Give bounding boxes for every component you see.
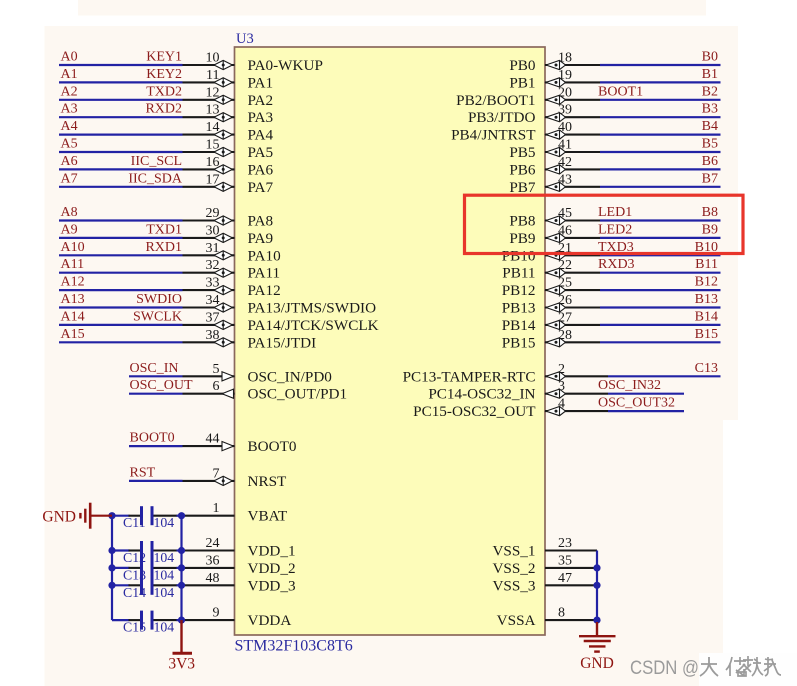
wire net B6 (blue) xyxy=(600,168,721,170)
capacitor C12 xyxy=(112,541,182,560)
pin 30 marker xyxy=(214,233,232,242)
wire to pin 36 (VDD_2) xyxy=(182,567,235,569)
svg-text:13: 13 xyxy=(206,103,220,118)
svg-text:GND: GND xyxy=(42,508,76,525)
pin 43 marker xyxy=(546,182,566,191)
svg-text:PB10: PB10 xyxy=(502,247,536,264)
svg-text:17: 17 xyxy=(206,172,220,187)
svg-text:BOOT0: BOOT0 xyxy=(248,438,297,455)
svg-text:A14: A14 xyxy=(61,309,85,324)
wire net B9 (blue) xyxy=(600,237,721,239)
wire to pin 14 (black) xyxy=(183,134,235,136)
svg-text:PA0-WKUP: PA0-WKUP xyxy=(248,57,323,74)
svg-text:27: 27 xyxy=(558,310,572,325)
svg-text:RXD1: RXD1 xyxy=(145,240,182,255)
svg-text:PB14: PB14 xyxy=(502,317,536,334)
svg-text:PB13: PB13 xyxy=(502,300,536,317)
wire from pin 26 (black) xyxy=(545,306,600,308)
pin 33 marker xyxy=(214,286,232,295)
wire to pin 44 (black) xyxy=(183,445,235,447)
svg-text:OSC_IN32: OSC_IN32 xyxy=(598,378,661,393)
svg-text:48: 48 xyxy=(206,571,220,586)
svg-text:B9: B9 xyxy=(702,222,718,237)
svg-text:A11: A11 xyxy=(61,257,85,272)
svg-text:A8: A8 xyxy=(61,205,78,220)
svg-text:30: 30 xyxy=(206,223,220,238)
svg-text:A7: A7 xyxy=(61,171,78,186)
svg-text:PA2: PA2 xyxy=(248,92,274,109)
svg-text:18: 18 xyxy=(558,51,572,66)
wire net B3 (blue) xyxy=(600,116,721,118)
wire to pin 5 (black) xyxy=(183,375,235,377)
IC U3 body (STM32F103C8T6) xyxy=(235,47,546,635)
svg-text:VDD_1: VDD_1 xyxy=(248,543,296,560)
svg-text:22: 22 xyxy=(558,258,572,273)
svg-text:C15: C15 xyxy=(123,620,146,635)
pin 41 marker xyxy=(546,147,566,156)
watermark glyph 1 xyxy=(700,657,718,676)
svg-text:A10: A10 xyxy=(61,240,85,255)
wire net RST (blue) xyxy=(129,480,183,482)
svg-text:PA3: PA3 xyxy=(248,109,274,126)
pin 39 marker xyxy=(546,113,566,122)
svg-text:35: 35 xyxy=(558,553,572,568)
svg-text:OSC_IN/PD0: OSC_IN/PD0 xyxy=(248,368,333,385)
svg-text:A2: A2 xyxy=(61,84,78,99)
svg-text:PA5: PA5 xyxy=(248,144,274,161)
pin 10 marker xyxy=(214,60,232,69)
svg-text:20: 20 xyxy=(558,85,572,100)
wire from pin 21 (black) xyxy=(545,254,600,256)
wire from pin 2 (black) xyxy=(545,375,608,377)
capacitor C11 xyxy=(112,506,182,525)
pin 21 marker xyxy=(546,251,566,260)
svg-text:24: 24 xyxy=(206,536,220,551)
wire to pin 37 (black) xyxy=(183,324,235,326)
svg-text:36: 36 xyxy=(206,553,220,568)
pin 17 marker xyxy=(214,182,232,191)
junction xyxy=(178,547,185,554)
wire from pin 42 (black) xyxy=(545,168,600,170)
wire net A12 (blue) xyxy=(59,289,183,291)
svg-text:B0: B0 xyxy=(702,50,718,65)
svg-text:B11: B11 xyxy=(695,257,718,272)
svg-text:U3: U3 xyxy=(236,31,254,47)
junction xyxy=(593,564,600,571)
wire to pin 6 (black) xyxy=(183,393,235,395)
pin 27 marker xyxy=(546,320,566,329)
svg-text:PB3/JTDO: PB3/JTDO xyxy=(468,109,536,126)
wire to pin 15 (black) xyxy=(183,151,235,153)
wire right rail (3V3 bus) xyxy=(180,516,182,620)
svg-text:BOOT1: BOOT1 xyxy=(598,84,643,99)
watermark glyph 2 xyxy=(726,657,746,676)
wire net A11 (blue) xyxy=(59,272,183,274)
pin 7 marker xyxy=(214,476,232,485)
wire from pin 40 (black) xyxy=(545,134,600,136)
svg-text:A12: A12 xyxy=(61,275,85,290)
svg-text:OSC_OUT32: OSC_OUT32 xyxy=(598,396,675,411)
svg-text:16: 16 xyxy=(206,155,220,170)
svg-text:LED2: LED2 xyxy=(598,222,632,237)
wire from pin 46 (black) xyxy=(545,237,600,239)
wire to pin 48 (VDD_3) xyxy=(182,584,235,586)
wire left rail (GND bus) xyxy=(111,516,113,620)
svg-text:NRST: NRST xyxy=(248,473,288,490)
svg-text:VDD_3: VDD_3 xyxy=(248,577,296,594)
svg-text:PA9: PA9 xyxy=(248,230,274,247)
svg-text:OSC_OUT/PD1: OSC_OUT/PD1 xyxy=(248,386,348,403)
capacitor C14 xyxy=(112,576,182,595)
junction xyxy=(108,547,115,554)
svg-text:CSDN @: CSDN @ xyxy=(630,657,699,679)
svg-text:B4: B4 xyxy=(702,119,718,134)
svg-text:A3: A3 xyxy=(61,102,78,117)
svg-text:32: 32 xyxy=(206,258,220,273)
pin 34 marker xyxy=(214,303,232,312)
wire net B10 (blue) xyxy=(600,254,721,256)
wire net A13 (blue) xyxy=(59,306,183,308)
wire net B2 (blue) xyxy=(600,99,721,101)
wire VSS rail (blue) xyxy=(596,551,598,623)
svg-text:104: 104 xyxy=(154,550,175,565)
wire net A9 (blue) xyxy=(59,237,183,239)
wire from pin 28 (black) xyxy=(545,341,600,343)
power 3V3 xyxy=(173,620,193,653)
pin 29 marker xyxy=(214,216,232,225)
svg-text:43: 43 xyxy=(558,172,572,187)
svg-text:PA11: PA11 xyxy=(248,265,281,282)
pin 13 marker xyxy=(214,113,232,122)
wire net A7 (blue) xyxy=(59,186,183,188)
junction xyxy=(108,564,115,571)
wire net A1 (blue) xyxy=(59,81,183,83)
svg-text:104: 104 xyxy=(154,585,175,600)
annotation highlight box (PB8/PB9 LED1/LED2) xyxy=(465,195,744,253)
svg-text:42: 42 xyxy=(558,155,572,170)
svg-text:VBAT: VBAT xyxy=(248,508,288,525)
svg-text:25: 25 xyxy=(558,276,572,291)
wire from pin 39 (black) xyxy=(545,116,600,118)
svg-text:PB6: PB6 xyxy=(509,161,536,178)
svg-text:TXD2: TXD2 xyxy=(146,84,182,99)
svg-text:A0: A0 xyxy=(61,50,78,65)
svg-text:46: 46 xyxy=(558,223,572,238)
svg-text:B1: B1 xyxy=(702,67,718,82)
svg-text:PA6: PA6 xyxy=(248,161,274,178)
wire to pin 33 (black) xyxy=(183,289,235,291)
svg-text:A13: A13 xyxy=(61,292,85,307)
wire from pin 35 (VSS_2) xyxy=(545,567,597,569)
svg-text:TXD1: TXD1 xyxy=(146,222,182,237)
pin 22 marker xyxy=(546,268,566,277)
svg-text:PA13/JTMS/SWDIO: PA13/JTMS/SWDIO xyxy=(248,300,377,317)
wire net A8 (blue) xyxy=(59,219,183,221)
watermark glyph 4 xyxy=(764,657,781,676)
wire to pin 10 (black) xyxy=(183,64,235,66)
svg-text:A4: A4 xyxy=(61,119,78,134)
svg-text:5: 5 xyxy=(213,362,220,377)
svg-text:15: 15 xyxy=(206,138,220,153)
pin 18 marker xyxy=(546,60,566,69)
svg-text:IIC_SDA: IIC_SDA xyxy=(128,171,183,186)
svg-text:B8: B8 xyxy=(702,205,718,220)
svg-text:PB5: PB5 xyxy=(509,144,535,161)
svg-text:37: 37 xyxy=(206,310,220,325)
wire from pin 4 (black) xyxy=(545,410,608,412)
svg-text:A9: A9 xyxy=(61,222,78,237)
wire net B13 (blue) xyxy=(600,306,721,308)
svg-text:BOOT0: BOOT0 xyxy=(130,431,175,446)
wire to pin 13 (black) xyxy=(183,116,235,118)
pin 12 marker xyxy=(214,95,232,104)
ground GND (VSS) xyxy=(579,622,616,652)
svg-text:PB2/BOOT1: PB2/BOOT1 xyxy=(456,92,535,109)
wire to pin 16 (black) xyxy=(183,168,235,170)
svg-text:PA10: PA10 xyxy=(248,247,282,264)
svg-text:IIC_SCL: IIC_SCL xyxy=(131,154,182,169)
svg-text:VSS_3: VSS_3 xyxy=(492,577,535,594)
pin 3 marker xyxy=(546,389,566,398)
wire from pin 43 (black) xyxy=(545,186,600,188)
svg-text:C13: C13 xyxy=(695,361,718,376)
wire net A5 (blue) xyxy=(59,151,183,153)
svg-text:104: 104 xyxy=(154,567,175,582)
junction xyxy=(178,582,185,589)
wire net A14 (blue) xyxy=(59,324,183,326)
pin 6 marker xyxy=(222,389,234,398)
wire net A2 (blue) xyxy=(59,99,183,101)
svg-text:4: 4 xyxy=(558,397,565,412)
pin 26 marker xyxy=(546,303,566,312)
wire to pin 29 (black) xyxy=(183,219,235,221)
ground GND (cap rail) xyxy=(80,503,112,529)
svg-text:GND: GND xyxy=(580,655,614,672)
svg-text:104: 104 xyxy=(154,620,175,635)
svg-text:PA15/JTDI: PA15/JTDI xyxy=(248,334,317,351)
wire from pin 25 (black) xyxy=(545,289,600,291)
junction (GND to rail) xyxy=(108,512,115,519)
pin 28 marker xyxy=(546,338,566,347)
svg-text:23: 23 xyxy=(558,536,572,551)
svg-text:B12: B12 xyxy=(695,275,718,290)
svg-text:PB8: PB8 xyxy=(509,213,536,230)
wire net A6 (blue) xyxy=(59,168,183,170)
svg-text:104: 104 xyxy=(154,515,175,530)
svg-text:38: 38 xyxy=(206,328,220,343)
wire net B14 (blue) xyxy=(600,324,721,326)
svg-text:9: 9 xyxy=(213,606,220,621)
wire from pin 20 (black) xyxy=(545,99,600,101)
pin 2 marker xyxy=(546,372,566,381)
svg-text:PC14-OSC32_IN: PC14-OSC32_IN xyxy=(428,386,535,403)
capacitor C13 xyxy=(112,558,182,577)
pin 37 marker xyxy=(214,320,232,329)
svg-text:41: 41 xyxy=(558,138,572,153)
svg-text:PA4: PA4 xyxy=(248,127,274,144)
junction xyxy=(593,582,600,589)
svg-text:PB7: PB7 xyxy=(509,179,536,196)
svg-text:29: 29 xyxy=(206,206,220,221)
svg-text:RXD3: RXD3 xyxy=(598,257,635,272)
svg-text:11: 11 xyxy=(206,68,219,83)
svg-text:B3: B3 xyxy=(702,102,718,117)
svg-text:12: 12 xyxy=(206,85,220,100)
svg-text:PB0: PB0 xyxy=(509,57,536,74)
wire net OSC_OUT32 (blue) xyxy=(608,410,684,412)
svg-text:10: 10 xyxy=(206,51,220,66)
pin 16 marker xyxy=(214,165,232,174)
svg-text:47: 47 xyxy=(558,571,572,586)
watermark glyph 3 xyxy=(743,656,763,676)
svg-text:8: 8 xyxy=(558,606,565,621)
wire from pin 8 (VSSA) xyxy=(545,619,597,621)
wire to pin 34 (black) xyxy=(183,306,235,308)
svg-text:SWDIO: SWDIO xyxy=(136,292,182,307)
svg-text:VSS_1: VSS_1 xyxy=(492,543,535,560)
wire net OSC_IN (blue) xyxy=(129,375,183,377)
wire net B5 (blue) xyxy=(600,151,721,153)
pin 11 marker xyxy=(214,78,232,87)
svg-text:40: 40 xyxy=(558,120,572,135)
svg-text:31: 31 xyxy=(206,241,220,256)
svg-text:44: 44 xyxy=(206,432,220,447)
svg-text:A5: A5 xyxy=(61,137,78,152)
svg-text:7: 7 xyxy=(213,466,220,481)
pin 19 marker xyxy=(546,78,566,87)
wire to pin 12 (black) xyxy=(183,99,235,101)
svg-text:PA12: PA12 xyxy=(248,282,281,299)
wire from pin 41 (black) xyxy=(545,151,600,153)
junction xyxy=(593,617,600,624)
pin 20 marker xyxy=(546,95,566,104)
pin 5 marker xyxy=(222,372,234,381)
pin 40 marker xyxy=(546,130,566,139)
pin 42 marker xyxy=(546,165,566,174)
svg-text:B15: B15 xyxy=(695,327,718,342)
svg-text:PA8: PA8 xyxy=(248,213,274,230)
svg-text:OSC_IN: OSC_IN xyxy=(130,361,179,376)
svg-text:KEY2: KEY2 xyxy=(146,67,182,82)
svg-text:PB12: PB12 xyxy=(502,282,536,299)
wire net A10 (blue) xyxy=(59,254,183,256)
wire from pin 47 (VSS_3) xyxy=(545,584,597,586)
svg-text:LED1: LED1 xyxy=(598,205,632,220)
svg-text:PA14/JTCK/SWCLK: PA14/JTCK/SWCLK xyxy=(248,317,379,334)
wire net OSC_OUT (blue) xyxy=(129,393,183,395)
pin 38 marker xyxy=(214,338,232,347)
pin 44 marker xyxy=(222,442,234,451)
pin 46 marker xyxy=(546,233,566,242)
junction xyxy=(178,617,185,624)
svg-text:19: 19 xyxy=(558,68,572,83)
wire net A0 (blue) xyxy=(59,64,183,66)
svg-text:STM32F103C8T6: STM32F103C8T6 xyxy=(235,638,353,655)
wire from pin 19 (black) xyxy=(545,81,600,83)
svg-text:PA1: PA1 xyxy=(248,74,274,91)
wire net A15 (blue) xyxy=(59,341,183,343)
wire net B12 (blue) xyxy=(600,289,721,291)
svg-text:3V3: 3V3 xyxy=(168,656,195,673)
wire from pin 23 (VSS_1) xyxy=(545,549,597,551)
capacitor C15 xyxy=(112,611,182,630)
svg-text:A6: A6 xyxy=(61,154,78,169)
svg-text:RXD2: RXD2 xyxy=(145,102,182,117)
svg-text:SWCLK: SWCLK xyxy=(133,309,182,324)
svg-text:B6: B6 xyxy=(702,154,718,169)
wire net A3 (blue) xyxy=(59,116,183,118)
svg-text:B13: B13 xyxy=(695,292,718,307)
pin 45 marker xyxy=(546,216,566,225)
pin 31 marker xyxy=(214,251,232,260)
svg-text:B7: B7 xyxy=(702,171,718,186)
wire from pin 18 (black) xyxy=(545,64,600,66)
svg-text:B2: B2 xyxy=(702,84,718,99)
wire from pin 3 (black) xyxy=(545,393,608,395)
wire net B0 (blue) xyxy=(600,64,721,66)
svg-text:PC15-OSC32_OUT: PC15-OSC32_OUT xyxy=(413,403,536,420)
junction xyxy=(108,582,115,589)
pin 25 marker xyxy=(546,286,566,295)
svg-text:26: 26 xyxy=(558,293,572,308)
svg-text:3: 3 xyxy=(558,379,565,394)
wire net A4 (blue) xyxy=(59,134,183,136)
wire net B4 (blue) xyxy=(600,134,721,136)
pin 32 marker xyxy=(214,268,232,277)
svg-text:PB11: PB11 xyxy=(502,265,535,282)
svg-text:A15: A15 xyxy=(61,327,85,342)
wire to pin 32 (black) xyxy=(183,272,235,274)
wire to pin 9 (VDDA) xyxy=(182,619,235,621)
svg-text:14: 14 xyxy=(206,120,220,135)
svg-text:PC13-TAMPER-RTC: PC13-TAMPER-RTC xyxy=(403,368,536,385)
junction xyxy=(178,564,185,571)
svg-text:B5: B5 xyxy=(702,137,718,152)
wire to pin 24 (VDD_1) xyxy=(182,549,235,551)
wire net BOOT0 (blue) xyxy=(129,445,183,447)
pin 4 marker xyxy=(546,407,566,416)
wire from pin 45 (black) xyxy=(545,219,600,221)
wire net B11 (blue) xyxy=(600,272,721,274)
wire to pin 7 (black) xyxy=(183,480,235,482)
wire net C13 (blue) xyxy=(608,375,721,377)
svg-text:1: 1 xyxy=(213,501,220,516)
wire from pin 27 (black) xyxy=(545,324,600,326)
svg-text:33: 33 xyxy=(206,276,220,291)
svg-text:2: 2 xyxy=(558,362,565,377)
wire to pin 17 (black) xyxy=(183,186,235,188)
junction xyxy=(178,512,185,519)
svg-text:B14: B14 xyxy=(695,309,718,324)
svg-text:34: 34 xyxy=(206,293,220,308)
wire from pin 22 (black) xyxy=(545,272,600,274)
wire net B1 (blue) xyxy=(600,81,721,83)
svg-text:KEY1: KEY1 xyxy=(146,50,182,65)
svg-text:PB15: PB15 xyxy=(502,334,536,351)
svg-text:VDDA: VDDA xyxy=(248,612,292,629)
wire to pin 38 (black) xyxy=(183,341,235,343)
svg-text:45: 45 xyxy=(558,206,572,221)
svg-text:A1: A1 xyxy=(61,67,78,82)
svg-text:C14: C14 xyxy=(123,585,146,600)
svg-text:VSSA: VSSA xyxy=(497,612,536,629)
wire to pin 31 (black) xyxy=(183,254,235,256)
svg-text:PB4/JNTRST: PB4/JNTRST xyxy=(451,127,536,144)
svg-text:28: 28 xyxy=(558,328,572,343)
pin 14 marker xyxy=(214,130,232,139)
svg-text:C11: C11 xyxy=(123,515,146,530)
wire net B8 (blue) xyxy=(600,219,721,221)
